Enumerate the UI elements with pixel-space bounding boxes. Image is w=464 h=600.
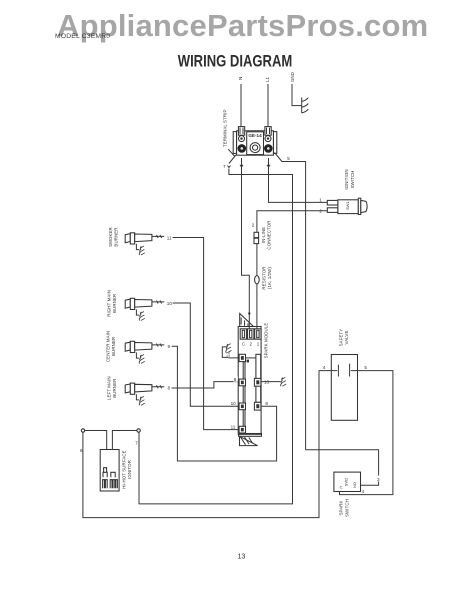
spark electrode symbol net12 xyxy=(226,344,232,353)
svg-text:11: 11 xyxy=(167,235,172,240)
svg-text:C: C xyxy=(242,342,245,347)
wire net2 switch to connector xyxy=(257,211,327,233)
svg-text:5: 5 xyxy=(364,365,367,370)
node 8 module label xyxy=(233,376,237,382)
terminal ring left xyxy=(81,429,84,432)
svg-text:C: C xyxy=(340,485,343,490)
spark electrode symbol center main xyxy=(139,355,145,364)
svg-text:13: 13 xyxy=(237,552,245,561)
svg-text:5: 5 xyxy=(287,156,290,161)
wire net12 module ground xyxy=(222,347,239,358)
left main burner label xyxy=(107,376,117,400)
wire N supply xyxy=(240,84,242,127)
safety valve label xyxy=(338,329,349,347)
spark switch SW2 xyxy=(334,472,361,491)
svg-text:SMOKER: SMOKER xyxy=(108,227,113,247)
svg-text:AppliancePartsPros.com: AppliancePartsPros.com xyxy=(57,8,428,43)
wire net13 module electrode xyxy=(261,381,281,383)
spark module U1 xyxy=(238,314,261,446)
svg-text:7: 7 xyxy=(223,164,226,169)
svg-text:RESISTOR: RESISTOR xyxy=(261,266,266,289)
center main burner ground xyxy=(136,352,139,358)
svg-text:GE-14: GE-14 xyxy=(248,133,262,138)
center main burner label xyxy=(106,331,116,362)
spark electrode symbol smoker xyxy=(139,246,145,255)
wire net8 left main to module xyxy=(172,382,240,388)
spark electrode symbol net13 xyxy=(281,377,287,386)
svg-text:IGNITION: IGNITION xyxy=(344,169,349,189)
svg-text:N: N xyxy=(238,77,243,80)
svg-text:2: 2 xyxy=(319,208,322,213)
smoker burner ground xyxy=(136,244,139,250)
svg-text:SW2: SW2 xyxy=(344,477,349,486)
terminal ring right xyxy=(137,429,140,432)
svg-text:SWITCH: SWITCH xyxy=(344,499,349,517)
svg-text:CENTER MAIN: CENTER MAIN xyxy=(106,331,111,362)
wire net9 center main to module xyxy=(172,346,277,461)
wire strip left screw to spark module xyxy=(240,158,249,329)
svg-text:10: 10 xyxy=(167,301,173,306)
svg-text:LEFT MAIN: LEFT MAIN xyxy=(107,376,112,400)
spark electrode symbol right main xyxy=(139,312,145,321)
wire connector to resistor xyxy=(256,244,258,276)
svg-text:HI-HOT SURFACE: HI-HOT SURFACE xyxy=(121,450,126,488)
spark switch label xyxy=(339,499,350,517)
wire net5 strip right to bus xyxy=(275,153,306,450)
right main burner label xyxy=(107,290,117,317)
svg-text:11: 11 xyxy=(231,424,236,429)
left main burner ground xyxy=(136,394,139,400)
node 3 label xyxy=(377,476,381,483)
wire resistor to module xyxy=(256,284,258,329)
svg-text:CONNECTOR: CONNECTOR xyxy=(267,220,272,249)
wire net7 from strip xyxy=(139,155,293,504)
svg-text:SPARK: SPARK xyxy=(339,500,344,515)
svg-text:BURNER: BURNER xyxy=(113,227,118,246)
safety valve V1 xyxy=(331,355,357,421)
svg-text:IN-LINE: IN-LINE xyxy=(261,227,266,243)
right main burner igniter xyxy=(125,298,164,309)
hot surface ignitor HSI xyxy=(100,450,119,492)
wire net4 valve left pin xyxy=(319,370,338,372)
svg-text:SWITCH: SWITCH xyxy=(350,171,355,189)
wire net11 smoker to module xyxy=(173,238,240,430)
svg-text:SPARK MODULE: SPARK MODULE xyxy=(264,323,269,359)
svg-text:BURNER: BURNER xyxy=(111,337,116,356)
svg-text:1: 1 xyxy=(319,197,322,202)
svg-text:4: 4 xyxy=(323,365,326,370)
svg-text:SAFETY: SAFETY xyxy=(338,329,343,347)
terminal strip TS1 xyxy=(233,127,277,156)
terminal strip pointer xyxy=(228,149,234,156)
svg-text:9: 9 xyxy=(265,401,268,406)
wire net10 right main to module xyxy=(173,303,240,406)
svg-text:8: 8 xyxy=(168,386,171,391)
svg-text:SW1: SW1 xyxy=(345,201,350,210)
resistor R1 xyxy=(255,276,260,284)
svg-text:BURNER: BURNER xyxy=(112,294,117,313)
ground chassis symbol xyxy=(302,98,309,114)
left main burner igniter xyxy=(125,383,164,394)
in-line connector label xyxy=(261,220,272,249)
in-line connector P1 xyxy=(254,232,259,243)
ignition switch label xyxy=(344,169,355,189)
junction dot xyxy=(248,312,250,314)
wire net5b valve right to spark switch xyxy=(340,371,393,495)
ignition switch SW1 xyxy=(327,198,367,214)
spark electrode symbol left main xyxy=(139,396,145,405)
resistor label xyxy=(261,266,272,289)
wire HSI right lead xyxy=(112,431,137,450)
wire GND xyxy=(292,84,302,106)
svg-text:RIGHT MAIN: RIGHT MAIN xyxy=(107,290,112,317)
svg-text:VALVE: VALVE xyxy=(344,330,349,344)
node 13 label xyxy=(264,379,270,385)
svg-text:2: 2 xyxy=(252,223,255,228)
svg-text:8: 8 xyxy=(234,377,237,382)
svg-text:TERMINAL STRIP: TERMINAL STRIP xyxy=(223,110,228,148)
svg-text:9: 9 xyxy=(168,344,171,349)
svg-text:BURNER: BURNER xyxy=(112,379,117,398)
wire HSI left lead xyxy=(85,431,107,450)
smoker burner igniter xyxy=(125,233,164,244)
svg-text:7: 7 xyxy=(135,441,138,446)
wire net1 strip to ignition switch xyxy=(267,158,327,202)
svg-text:(1K, 1/2W): (1K, 1/2W) xyxy=(267,267,272,289)
svg-text:IGNITOR: IGNITOR xyxy=(127,460,132,479)
svg-text:3: 3 xyxy=(377,477,380,482)
svg-text:L1: L1 xyxy=(265,76,270,82)
wire L1 supply xyxy=(267,84,269,127)
svg-text:10: 10 xyxy=(231,401,237,406)
smoker burner label xyxy=(108,227,118,247)
svg-text:GND: GND xyxy=(290,72,295,82)
wire net6 HSI to valve xyxy=(83,371,319,518)
svg-text:MODEL C3EMR0: MODEL C3EMR0 xyxy=(55,33,110,40)
wire net3 bus to spark switch xyxy=(306,450,379,486)
svg-text:WIRING DIAGRAM: WIRING DIAGRAM xyxy=(178,53,293,71)
svg-text:NO: NO xyxy=(352,482,357,488)
center main burner igniter xyxy=(125,341,164,352)
hot surface ignitor label xyxy=(121,450,131,488)
right main burner ground xyxy=(136,309,139,315)
svg-text:4: 4 xyxy=(362,489,365,494)
